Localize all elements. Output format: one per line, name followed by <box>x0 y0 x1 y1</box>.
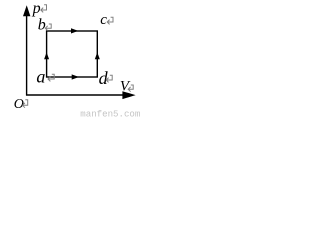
svg-text:c: c <box>100 12 107 28</box>
svg-text:p: p <box>32 0 41 17</box>
svg-text:O: O <box>14 97 24 112</box>
svg-text:d: d <box>99 68 109 88</box>
svg-text:manfen5.com: manfen5.com <box>80 108 140 119</box>
svg-text:a: a <box>36 66 45 86</box>
svg-text:b: b <box>38 17 46 34</box>
